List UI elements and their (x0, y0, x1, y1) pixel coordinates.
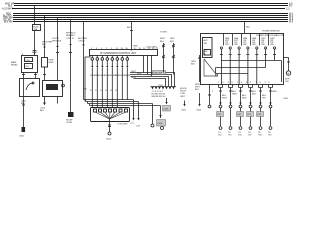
svg-text:BLU: BLU (242, 95, 247, 97)
svg-text:2: 2 (269, 82, 271, 84)
svg-text:C553: C553 (40, 108, 46, 110)
svg-text:C5: C5 (258, 132, 262, 134)
svg-text:WHT: WHT (131, 71, 136, 73)
svg-text:RELAY: RELAY (11, 64, 18, 67)
svg-text:C301: C301 (158, 123, 164, 125)
svg-text:MAIN: MAIN (11, 61, 17, 64)
svg-text:C750 9: C750 9 (78, 41, 86, 43)
svg-text:C560: C560 (283, 98, 289, 100)
svg-text:WHT/BLU: WHT/BLU (66, 33, 76, 35)
svg-text:GRN: GRN (272, 91, 277, 93)
svg-text:27: 27 (156, 48, 159, 50)
svg-text:BU/B: BU/B (125, 75, 130, 77)
svg-text:NOISE: NOISE (66, 120, 73, 122)
svg-text:WHT/BLK: WHT/BLK (52, 41, 62, 43)
svg-text:W-5: W-5 (289, 21, 294, 23)
svg-text:BLK: BLK (252, 94, 257, 96)
svg-text:G401: G401 (19, 136, 25, 138)
svg-text:G552: G552 (106, 139, 112, 141)
svg-text:1: 1 (212, 91, 214, 93)
svg-text:BLU: BLU (160, 41, 165, 43)
svg-text:BLK: BLK (8, 6, 13, 8)
svg-text:757: 757 (248, 135, 252, 137)
svg-text:RLY: RLY (26, 66, 31, 68)
svg-text:GRN: GRN (191, 61, 196, 63)
svg-text:C561: C561 (158, 85, 164, 87)
svg-text:SW: SW (204, 43, 207, 45)
svg-text:12: 12 (95, 90, 98, 92)
svg-text:TO MR: TO MR (160, 32, 167, 34)
svg-text:YEL: YEL (262, 98, 267, 100)
svg-text:C301: C301 (164, 109, 170, 111)
svg-text:BLU: BLU (222, 95, 227, 97)
svg-text:5: 5 (223, 82, 225, 84)
svg-text:20: 20 (115, 90, 118, 92)
svg-text:B-1: B-1 (289, 6, 293, 8)
svg-text:C4: C4 (248, 132, 252, 134)
svg-text:C562: C562 (181, 110, 187, 112)
svg-text:WND: WND (49, 62, 54, 64)
svg-text:POWER WINDOW MAST SW: POWER WINDOW MAST SW (256, 34, 284, 37)
svg-text:RED: RED (170, 38, 175, 40)
svg-text:UNIT: UNIT (180, 96, 186, 98)
svg-text:6: 6 (232, 82, 234, 84)
svg-text:759: 759 (268, 135, 272, 137)
svg-text:C78: C78 (136, 126, 141, 128)
svg-text:BLK: BLK (21, 103, 26, 105)
svg-text:BLU: BLU (232, 91, 237, 93)
svg-text:BLU: BLU (42, 44, 47, 46)
svg-text:WHT/GRN: WHT/GRN (42, 42, 52, 44)
svg-text:WHT: WHT (222, 98, 227, 100)
svg-text:7: 7 (256, 82, 258, 84)
svg-text:SW: SW (252, 44, 255, 46)
svg-text:COND: COND (66, 122, 73, 124)
svg-text:C77: C77 (130, 123, 135, 125)
svg-text:BLU/WHT: BLU/WHT (78, 38, 88, 40)
svg-text:5: 5 (265, 82, 267, 84)
svg-text:2: 2 (218, 82, 220, 84)
svg-text:BLK WH: BLK WH (4, 21, 13, 23)
svg-text:18: 18 (110, 90, 113, 92)
svg-text:C552 4: C552 4 (52, 38, 60, 40)
svg-text:C6: C6 (268, 132, 272, 134)
svg-text:10: 10 (90, 90, 93, 92)
svg-text:3: 3 (228, 82, 230, 84)
svg-text:9: 9 (250, 82, 252, 84)
svg-text:C3: C3 (238, 132, 242, 134)
svg-text:SW: SW (234, 44, 237, 46)
svg-text:4: 4 (241, 82, 243, 84)
svg-text:WHT: WHT (160, 38, 165, 40)
svg-text:RED: RED (137, 73, 142, 75)
svg-text:WH BK RD BU: WH BK RD BU (152, 96, 166, 98)
svg-text:C2: C2 (228, 132, 232, 134)
svg-text:758: 758 (258, 135, 262, 137)
svg-text:BLU: BLU (252, 91, 257, 93)
svg-text:755: 755 (228, 135, 232, 137)
svg-text:SW: SW (270, 44, 273, 46)
svg-text:RED: RED (242, 98, 247, 100)
svg-text:BLK: BLK (127, 27, 132, 29)
svg-text:C60: C60 (285, 81, 290, 83)
svg-text:A-22 WHT: A-22 WHT (2, 7, 13, 10)
svg-text:BLU: BLU (195, 89, 200, 91)
svg-text:BLK: BLK (191, 64, 196, 66)
svg-text:0: 0 (260, 82, 262, 84)
svg-text:RED/BLK: RED/BLK (66, 35, 76, 37)
svg-text:C750 12: C750 12 (66, 38, 75, 40)
svg-text:C750 30P: C750 30P (153, 73, 163, 75)
svg-text:MTR: MTR (285, 79, 290, 81)
svg-text:SW: SW (204, 51, 207, 53)
svg-text:GRN: GRN (133, 46, 138, 48)
svg-text:SW: SW (225, 44, 228, 46)
svg-text:A: A (204, 53, 206, 56)
svg-text:1: 1 (237, 82, 239, 84)
svg-text:C563: C563 (196, 110, 202, 112)
svg-text:P/W: P/W (26, 60, 30, 62)
svg-text:16: 16 (105, 90, 108, 92)
svg-text:BLU: BLU (262, 95, 267, 97)
svg-text:M: M (287, 73, 289, 75)
svg-text:AUT: AUT (204, 39, 209, 42)
svg-text:14: 14 (100, 90, 103, 92)
svg-text:15A: 15A (34, 28, 38, 31)
svg-text:C770 (SW): C770 (SW) (117, 124, 128, 126)
svg-text:SW: SW (243, 44, 246, 46)
svg-text:SW: SW (261, 44, 264, 46)
svg-text:GRN: GRN (131, 77, 136, 79)
svg-text:PWR: PWR (49, 60, 54, 62)
svg-text:BLU: BLU (40, 110, 45, 112)
svg-text:C1: C1 (218, 132, 222, 134)
svg-text:GRN: GRN (232, 94, 237, 96)
svg-text:I/F SUSPENSION CONTROL UNIT: I/F SUSPENSION CONTROL UNIT (100, 53, 137, 55)
svg-text:G401: G401 (21, 101, 27, 103)
svg-text:POWER WINDOW: POWER WINDOW (262, 31, 280, 33)
svg-text:BLK: BLK (170, 41, 175, 43)
svg-text:756: 756 (238, 135, 242, 137)
svg-text:C-2: C-2 (286, 8, 290, 10)
svg-text:BLU: BLU (246, 27, 251, 29)
svg-text:754: 754 (218, 135, 222, 137)
